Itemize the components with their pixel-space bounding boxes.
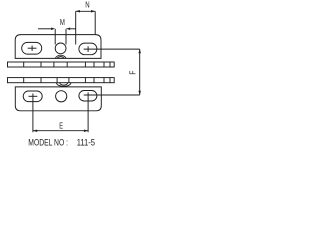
bottom plate right slot [79,91,97,102]
svg-text:111-5: 111-5 [77,136,95,147]
bottom plate center circle [56,91,67,102]
dimension F top arrow [138,49,141,53]
bottom plate right slot cross horizontal / dimension F bottom leader [84,94,140,96]
bottom plate left slot cross vertical / dimension E left extension [32,94,34,133]
upper bar divider 8 [109,62,111,67]
svg-text:M: M [60,17,65,27]
dimension N right extension line [94,11,96,35]
dimension E left arrow [33,129,37,132]
top plate right slot cross vertical [87,46,89,52]
upper bar divider 7 [103,62,105,67]
dimension N left extension line [75,11,77,44]
bottom plate right slot cross vertical / dimension E right extension [87,92,89,132]
top plate cam dome inner arc [57,57,64,59]
lower bar divider 8 [109,78,111,83]
dimension F line [139,49,141,95]
dimension F bottom arrow [138,91,141,95]
dimension E right arrow [84,129,88,132]
upper bar divider 6 [93,62,95,67]
dimension M left leader line [38,28,51,30]
lower bar cam dome outer arc (downward) [57,83,71,87]
lower bar divider 5 [84,78,86,83]
dimension M right leader line [70,28,76,30]
upper bar divider 5 [84,62,86,67]
lower bar divider 1 [23,78,25,83]
svg-text:MODEL NO :: MODEL NO : [28,136,68,147]
bottom plate left slot [23,91,42,102]
upper bar divider 2 [40,62,42,67]
bottom plate outline [15,87,101,111]
top plate left slot cross horizontal [28,47,37,49]
top plate center circle [55,43,66,54]
lower bar divider 2 [40,78,42,83]
lower bar divider 6 [93,78,95,83]
lower bar divider 3 [56,78,58,83]
upper bar divider 3 [53,62,55,67]
dimension N right arrow [91,10,95,13]
lower bar cam dome inner arc (downward) [60,83,68,85]
svg-text:E: E [59,121,63,131]
dimension M left extension line [54,29,56,45]
top plate outline [15,35,101,59]
svg-text:N: N [85,0,89,9]
upper bar divider 4 [66,62,68,67]
top plate right slot [79,43,97,55]
side view upper bar [8,62,115,67]
top plate left slot cross vertical [31,46,33,52]
dimension N line [76,10,96,12]
top plate left slot [22,42,42,54]
dimension M left arrow [51,28,55,31]
dimension M right extension line [65,29,67,45]
top plate right slot cross horizontal / dimension F top leader [84,48,140,50]
dimension E line [33,130,88,132]
bottom plate left slot cross horizontal [29,95,38,97]
lower bar divider 4 [68,78,70,83]
svg-text:F: F [128,71,137,75]
lower bar divider 7 [103,78,105,83]
top plate cam dome outer arc [55,55,66,58]
dimension N left arrow [76,10,80,13]
dimension M right arrow [66,28,70,31]
side view lower bar [8,78,115,83]
upper bar divider 1 [23,62,25,67]
